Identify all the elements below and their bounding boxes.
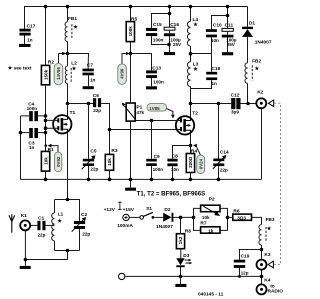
svg-text:D1: D1 — [249, 20, 255, 26]
svg-text:C15: C15 — [153, 22, 162, 28]
svg-text:D2: D2 — [164, 207, 170, 213]
wire D2 to P2/R7 node — [173, 216, 193, 218]
svg-text:100k: 100k — [128, 26, 133, 37]
svg-text:K1: K1 — [21, 213, 27, 219]
wire L4 to L3 — [190, 46, 192, 62]
wire C12 to K2 — [241, 103, 257, 105]
wire L4/L3 node to C10/C18 — [191, 37, 212, 72]
svg-text:C11: C11 — [225, 22, 234, 28]
junction LED ground — [179, 275, 183, 279]
junction T2 drain node — [189, 102, 193, 106]
wire C10/C11 feed — [212, 7, 228, 30]
wire L3 bottom to T2 drain — [190, 87, 192, 117]
junction R3 top — [108, 128, 112, 132]
junction C14 branch — [217, 102, 221, 106]
wire R5 bottom to node B — [130, 42, 132, 54]
inductor L2 — [65, 66, 71, 84]
svg-text:1n: 1n — [90, 78, 96, 83]
svg-text:R5: R5 — [131, 16, 137, 22]
switch S1 — [140, 206, 154, 219]
svg-text:★: ★ — [57, 218, 62, 224]
svg-text:★: ★ — [72, 66, 77, 72]
svg-text:22p: 22p — [93, 108, 101, 113]
trimmer capacitor C5 — [82, 104, 99, 180]
transistor T2 dual-gate MOSFET — [176, 110, 198, 134]
wire L2 bottom to drain node — [67, 84, 69, 104]
wire node B to C13 — [131, 54, 152, 71]
resistor R2 — [41, 60, 54, 85]
connector K2 — [256, 90, 266, 109]
diode D2 1N4007 — [156, 207, 173, 230]
wire T1 source down to tank (crosses ground rail) — [67, 133, 69, 200]
svg-text:★: ★ — [193, 66, 198, 72]
wire parallel loop P2 — [194, 208, 228, 217]
wire L4 top stub — [190, 7, 192, 22]
junction C14 ground — [217, 178, 221, 182]
inductor L1 — [52, 200, 55, 251]
capacitor C10 — [206, 16, 222, 43]
ground below C7 — [83, 86, 94, 89]
inductor L4 — [187, 21, 190, 46]
capacitor C6 — [93, 93, 102, 113]
measured voltage 1V85 — [147, 104, 175, 119]
node drain T1 junction — [66, 102, 70, 106]
inductor L3 — [187, 62, 190, 87]
junction C5 ground — [87, 178, 91, 182]
svg-text:★: ★ — [8, 66, 13, 72]
svg-text:T2: T2 — [192, 110, 198, 116]
resistor R4 — [186, 148, 197, 172]
capacitor C8 — [167, 146, 190, 180]
svg-text:100n: 100n — [153, 80, 164, 85]
wire wiper to T2 gate2 — [137, 120, 177, 122]
svg-text:★: ★ — [267, 226, 272, 232]
svg-text:4V96: 4V96 — [120, 68, 125, 79]
svg-text:R4: R4 — [191, 148, 197, 154]
ground rail — [21, 178, 262, 180]
svg-text:D3: D3 — [183, 253, 189, 259]
svg-text:47k: 47k — [136, 110, 144, 115]
capacitor C18 — [191, 66, 221, 89]
junction T2 source — [189, 144, 193, 148]
svg-text:L4: L4 — [193, 17, 199, 23]
inductor FB3 — [259, 225, 266, 245]
svg-text:FB3: FB3 — [266, 217, 275, 223]
capacitor C4 — [21, 101, 46, 121]
junction C8 ground — [171, 178, 175, 182]
wire K3 node to C19 — [240, 250, 262, 260]
svg-text:12p: 12p — [241, 271, 249, 276]
wire top supply rail — [25, 7, 248, 29]
svg-text:22p: 22p — [90, 167, 98, 172]
svg-text:100n: 100n — [153, 38, 164, 43]
svg-text:P2: P2 — [209, 197, 215, 203]
svg-text:C9: C9 — [154, 154, 160, 160]
svg-text:R2: R2 — [48, 60, 54, 66]
svg-text:1k: 1k — [208, 228, 214, 233]
svg-text:R1: R1 — [48, 147, 54, 153]
junction R4 ground — [189, 178, 193, 182]
junction C10/C11 node — [226, 14, 230, 18]
svg-text:R8: R8 — [185, 229, 191, 235]
wire S1 to D2 — [154, 216, 163, 218]
capacitor C11 electrolytic — [222, 22, 237, 52]
svg-text:1N4007: 1N4007 — [156, 224, 173, 230]
capacitor C16 electrolytic — [164, 22, 182, 52]
svg-text:3Ω3: 3Ω3 — [237, 216, 246, 221]
svg-text:C14: C14 — [220, 150, 229, 156]
capacitor C13 — [146, 66, 164, 87]
resistor R5 — [126, 16, 137, 41]
ground symbol on rail — [130, 179, 132, 187]
junction P2/R7 left node — [192, 216, 196, 220]
supply minus terminal — [119, 273, 125, 279]
svg-text:040145 - 11: 040145 - 11 — [198, 291, 224, 297]
svg-text:C5: C5 — [90, 149, 96, 155]
svg-text:1n: 1n — [29, 145, 35, 150]
svg-text:22p: 22p — [220, 167, 228, 172]
svg-text:1n: 1n — [27, 37, 33, 42]
svg-text:R6: R6 — [233, 208, 239, 214]
capacitor C17 — [19, 23, 35, 44]
svg-text:R7: R7 — [200, 221, 206, 227]
ground below C13 — [146, 86, 157, 89]
junction R3 ground — [108, 178, 112, 182]
measured voltage 4V96 — [118, 52, 130, 85]
svg-text:L1: L1 — [58, 212, 64, 218]
capacitor C12 — [231, 93, 241, 115]
antenna symbol — [9, 214, 15, 232]
svg-text:100mA: 100mA — [117, 223, 133, 229]
capacitor C9 — [146, 121, 163, 180]
svg-text:14V56: 14V56 — [56, 67, 61, 80]
svg-text:10k: 10k — [43, 157, 48, 165]
ground below C17 — [19, 44, 31, 47]
wire tank bottom — [55, 229, 80, 251]
svg-text:L2: L2 — [71, 61, 77, 67]
signal direction arrow at K2 — [268, 100, 273, 107]
junction K1 ground — [24, 258, 28, 262]
connector K3 — [257, 252, 271, 270]
wire R2 column from rail — [45, 7, 47, 66]
svg-text:K4: K4 — [264, 278, 270, 284]
junction K3/K4/ground line — [260, 275, 264, 279]
transistor T1 dual-gate MOSFET — [46, 110, 76, 133]
junction R1 ground — [44, 178, 48, 182]
wire parallel loop R7 — [194, 217, 228, 230]
wire gate bias column R2 to R1 — [45, 85, 47, 152]
resistor R1 — [41, 147, 54, 180]
capacitor C1 — [37, 215, 45, 237]
junction R8 branch — [179, 216, 183, 220]
node A junction (FB1/L2/C7) — [66, 52, 70, 56]
svg-text:T1, T2 = BF965, BF966S: T1, T2 = BF965, BF966S — [137, 190, 206, 197]
junction C9 top — [150, 119, 154, 123]
wire tank bottom to K1 ground — [25, 231, 67, 266]
svg-text:T1: T1 — [70, 110, 76, 116]
svg-text:0V92: 0V92 — [56, 156, 61, 167]
svg-text:10k: 10k — [202, 215, 210, 220]
svg-text:3p9: 3p9 — [231, 109, 239, 114]
svg-text:220Ω: 220Ω — [188, 156, 193, 168]
wire R6 to FB3 — [252, 217, 262, 224]
wire tank top — [55, 200, 80, 222]
svg-text:★: ★ — [73, 25, 78, 31]
svg-text:C2: C2 — [81, 212, 87, 218]
wire FB3 to K3 node — [261, 245, 263, 260]
svg-text:see text: see text — [14, 65, 32, 71]
junction C19/K3 node — [260, 248, 264, 252]
wire right node to R6 — [228, 216, 233, 218]
svg-text:RADIO: RADIO — [268, 289, 284, 295]
svg-text:★: ★ — [255, 66, 260, 72]
svg-text:C7: C7 — [87, 62, 93, 68]
wire C6 node to T2 gate1 — [110, 129, 177, 131]
wire T2 drain node to C12 — [191, 103, 232, 105]
svg-text:★: ★ — [193, 22, 198, 28]
svg-text:10k: 10k — [107, 158, 112, 166]
inductor FB2 — [245, 63, 252, 83]
ground below LED — [180, 276, 182, 284]
junction C15/C16 bottoms — [167, 43, 171, 47]
junction C19 bottom — [238, 275, 241, 278]
resistor R3 — [105, 148, 118, 180]
svg-text:C6: C6 — [93, 93, 99, 99]
measured voltage 0V24 — [193, 144, 205, 174]
capacitor C15 — [146, 22, 170, 44]
wire C1 to L1 tap — [46, 224, 55, 226]
capacitor C7 — [83, 62, 96, 86]
svg-text:100n: 100n — [27, 106, 38, 111]
resistor R6 — [233, 208, 252, 220]
wire K3 to K4 — [261, 270, 263, 285]
wire C15/C16 feed — [152, 7, 170, 28]
capacitor C3 — [21, 128, 46, 150]
wire K1 to C1 — [30, 224, 37, 226]
junction T1 g1 — [44, 126, 48, 130]
svg-text:K2: K2 — [257, 90, 263, 96]
svg-text:1k2: 1k2 — [178, 236, 183, 244]
svg-text:C12: C12 — [231, 93, 240, 99]
wire R5 top stub — [130, 7, 132, 22]
LED D3 — [176, 249, 192, 277]
junction T1 g2 — [44, 119, 48, 123]
junction C5 branch — [87, 102, 91, 106]
junction dots on top rail — [44, 5, 230, 9]
svg-text:S1: S1 — [146, 206, 152, 212]
junction L4/L3 node — [189, 52, 193, 56]
junction T1 source to tank — [66, 198, 70, 202]
svg-text:FB2: FB2 — [252, 59, 261, 65]
svg-text:+15V: +15V — [123, 207, 135, 213]
svg-text:C10: C10 — [213, 22, 222, 28]
wire L2 top stub — [67, 54, 69, 67]
svg-text:10n: 10n — [211, 38, 219, 43]
wire FB1 top stub — [67, 7, 69, 22]
diode D1 1N4007 — [242, 7, 272, 63]
resistor R7 — [200, 221, 220, 234]
wire node A to C7 — [68, 54, 89, 69]
connector K1 — [20, 213, 30, 231]
ground below C16 — [164, 52, 175, 55]
svg-text:25V: 25V — [227, 42, 236, 47]
signal direction arrow at K3 — [268, 261, 273, 268]
dashed coax run K2 to K3 — [274, 103, 280, 264]
svg-text:K3: K3 — [264, 252, 270, 258]
ground below K1 — [20, 266, 31, 269]
capacitor C19 — [234, 254, 250, 277]
svg-text:1V85: 1V85 — [149, 106, 160, 111]
svg-text:100n: 100n — [153, 167, 164, 172]
svg-text:FB1: FB1 — [68, 16, 77, 22]
junction P2/R7 right node — [226, 216, 230, 220]
svg-text:C16: C16 — [170, 22, 179, 28]
junction C3 left — [19, 131, 23, 135]
wire ground rail up to K2 shield — [261, 109, 263, 179]
ground below C11 — [222, 52, 233, 55]
measured voltage 0V92 — [45, 144, 62, 172]
potentiometer P1 — [122, 103, 145, 180]
svg-text:25V: 25V — [173, 42, 182, 47]
svg-text:1N4007: 1N4007 — [255, 39, 272, 45]
svg-text:10n: 10n — [171, 167, 179, 172]
junction tank bottom — [66, 249, 70, 253]
wire node B down to P1 — [130, 54, 132, 104]
wire left ground column C4/C3 to ground rail — [20, 116, 22, 179]
svg-text:22p: 22p — [38, 232, 46, 237]
svg-text:C8: C8 — [172, 154, 178, 160]
connector K4 — [257, 278, 284, 295]
inductor FB1 — [65, 22, 72, 42]
junction C4 right — [44, 114, 48, 118]
supply plus terminal — [123, 214, 129, 220]
wire FB1 bottom to node A — [67, 42, 69, 54]
svg-text:22p: 22p — [82, 232, 90, 237]
node B junction (R5/P1/C13) — [129, 52, 133, 56]
wire T2 source node — [190, 134, 192, 179]
wire FB2 bottom to K2 node — [247, 83, 249, 103]
trimmer capacitor C2 — [72, 212, 91, 237]
svg-text:C17: C17 — [27, 23, 36, 29]
svg-text:150k: 150k — [43, 69, 48, 80]
bottom ground line — [125, 275, 262, 277]
measured voltage 14V56 — [54, 52, 66, 85]
trimmer capacitor C14 — [213, 104, 229, 180]
svg-text:C13: C13 — [152, 66, 161, 72]
preset P2 — [201, 197, 221, 220]
wire T1 drain up — [67, 104, 69, 116]
junction C3 right — [44, 131, 48, 135]
junction P1 ground — [129, 178, 133, 182]
svg-text:0V24: 0V24 — [198, 158, 203, 169]
wire plus terminal to S1 — [129, 216, 140, 218]
resistor R8 — [176, 217, 191, 248]
svg-text:C1: C1 — [38, 215, 44, 221]
svg-text:1n: 1n — [212, 81, 218, 86]
svg-text:to: to — [270, 283, 275, 289]
junction FB2/K2 node — [246, 102, 250, 106]
junction C9 ground — [150, 178, 154, 182]
svg-text:R3: R3 — [111, 148, 117, 154]
wire drain node to C6 and corner down to R3 — [68, 104, 110, 155]
svg-text:+12V: +12V — [104, 207, 116, 213]
svg-text:C18: C18 — [211, 66, 220, 72]
svg-text:C19: C19 — [241, 254, 250, 260]
